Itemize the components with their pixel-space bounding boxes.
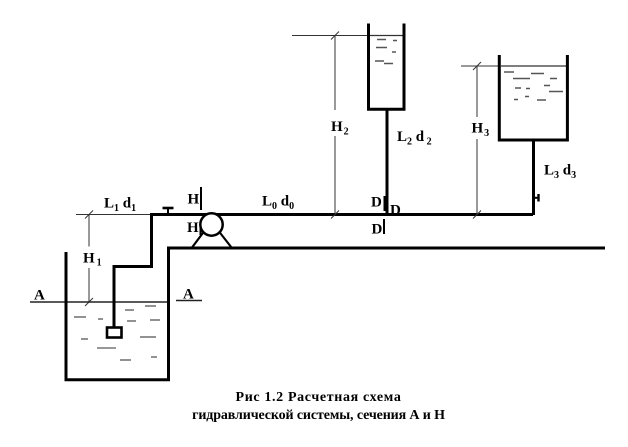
dimension H1 vertical line (broken at label) [88,215,90,303]
pump support triangle [192,232,232,248]
svg-text:L2 d 2: L2 d 2 [397,129,432,148]
water dashes in reservoir [74,306,160,360]
svg-text:D: D [371,195,382,211]
pump circle H [200,213,222,235]
svg-text:H1: H1 [83,251,102,269]
reservoir tank (open top, bottom-left) [66,248,169,380]
tick at top of H3 [473,62,481,70]
svg-text:A: A [34,288,45,304]
dimension H2 vertical [334,36,336,111]
suction pipe: riser from pump down into reservoir [114,215,152,329]
svg-text:L0 d0: L0 d0 [262,194,294,213]
dimension H3 horizontal at tank3 water level [461,65,498,67]
tank 2 (open top) [369,24,405,110]
tick at bottom of H1 [85,298,93,306]
main pipe L0 (horizontal) [150,213,533,216]
section H marker (bottom) [200,221,202,235]
water dashes in tank 3 [504,72,563,100]
tick at top of H2 [331,32,339,40]
section D marker (top left of junction) [384,196,386,211]
dimension H2: horizontal at tank2 water level [292,35,367,37]
svg-text:H: H [187,220,199,236]
tank 3 water level line [501,65,566,67]
tank 2 water level line [369,35,404,37]
svg-text:H3: H3 [472,121,490,140]
section A-A line with reservoir water level [30,301,202,303]
svg-text:A: A [183,287,194,303]
svg-text:гидравлической системы, сечени: гидравлической системы, сечения А и Н [192,408,445,423]
svg-text:L1 d1: L1 d1 [104,196,136,215]
svg-text:D: D [390,203,401,219]
strainer box at pipe inlet [107,328,122,338]
svg-text:H: H [188,192,200,208]
pipe L3 from tank 3 down to main pipe [532,140,535,215]
svg-text:H2: H2 [331,119,349,138]
water dashes in tank 2 [375,40,397,64]
section H marker (top) [200,187,202,210]
pipe L2 from tank 2 down to main pipe [386,110,389,215]
svg-text:D: D [372,222,383,238]
section D marker (below pipe) [383,219,385,234]
tank 3 (open top) [499,55,567,140]
ground / bench line [167,247,605,250]
suction dimension line (thin, left of L1 pipe) [76,214,151,216]
dimension H3 vertical [476,66,478,117]
svg-text:Рис 1.2 Расчетная схема: Рис 1.2 Расчетная схема [236,390,402,405]
tick at bottom of H2 [331,211,339,219]
svg-text:L3 d3: L3 d3 [544,163,576,182]
valve on pipe L3 [533,194,539,202]
tick at bottom of H3 [473,211,481,219]
tick at top of H1 [85,211,93,219]
valve (tap) on suction pipe [163,208,174,213]
